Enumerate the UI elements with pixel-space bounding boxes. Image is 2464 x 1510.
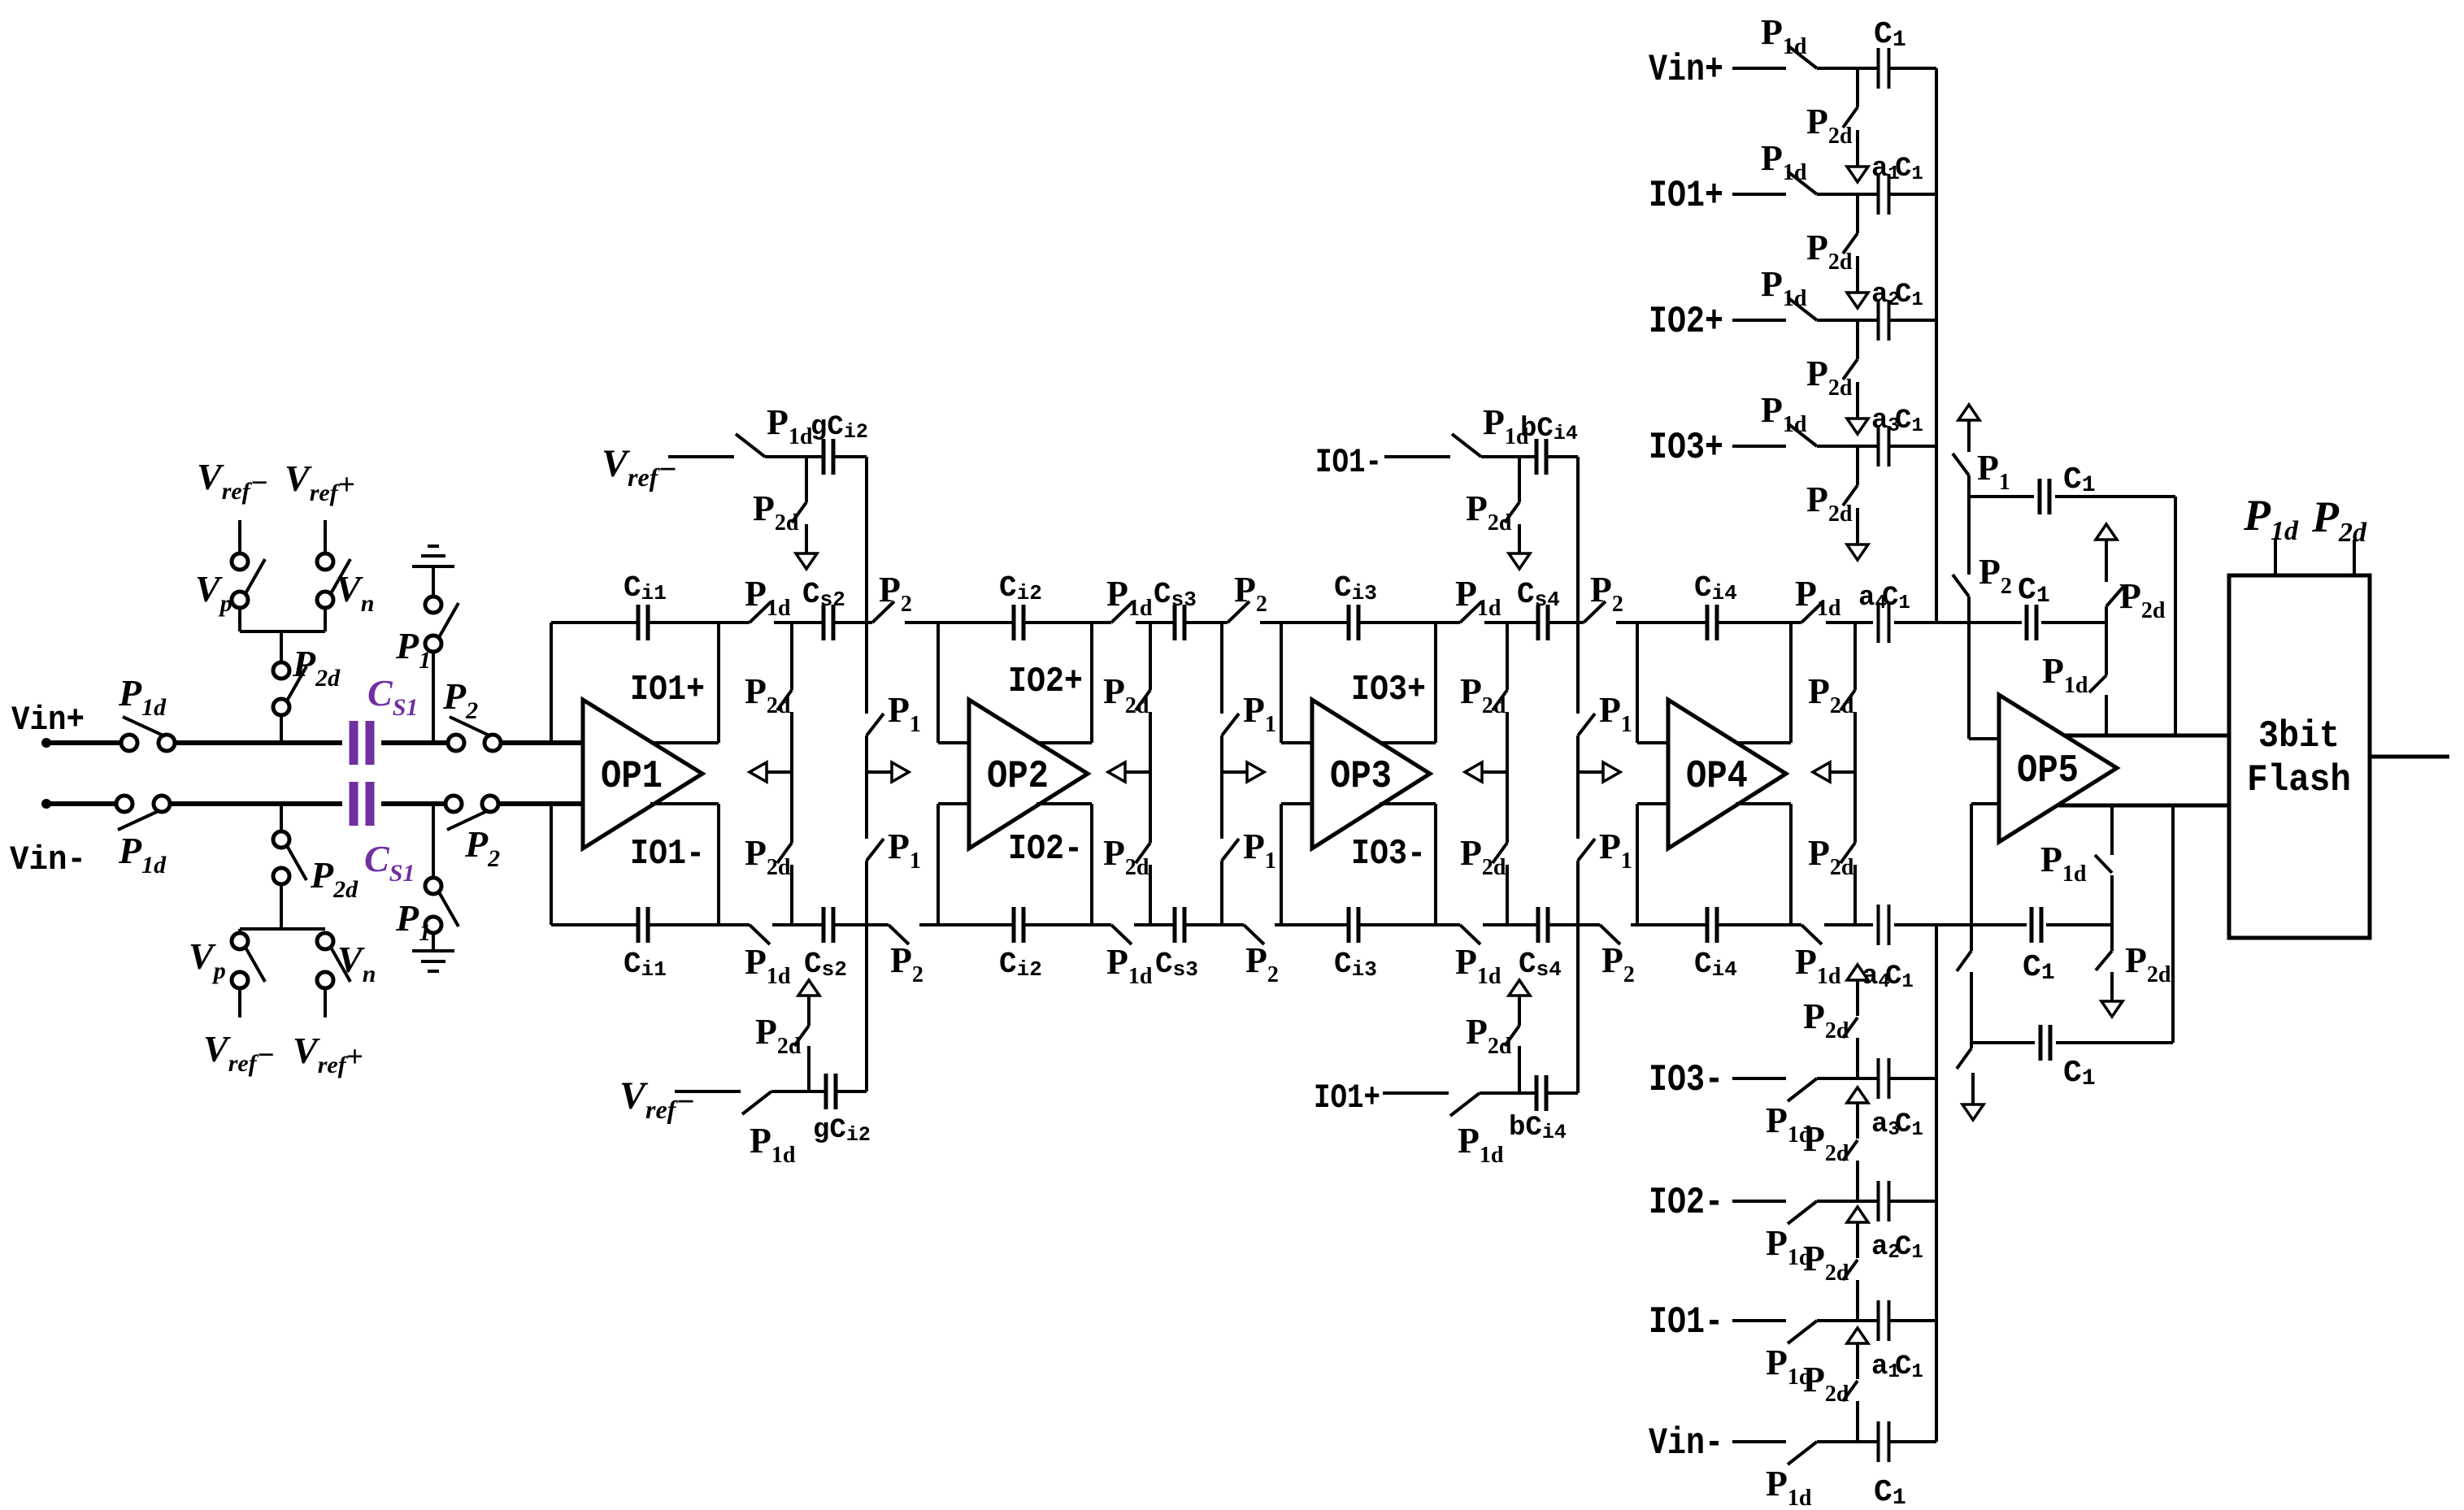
wire bCi4 vertical to top rail [1576, 457, 1580, 623]
op-amp OP1 [583, 700, 702, 848]
wire IO3- array row switch to cap [1817, 1077, 1879, 1080]
wire P1 vertical lower (stage3) [1576, 861, 1580, 925]
wire IO3+ array row P2d branch [1856, 446, 1859, 485]
wire bCi4 top switch to cap [1481, 455, 1536, 458]
switch P1 (top, to ground) [425, 597, 458, 652]
arrow down (IO3+ array row common-mode) [1847, 508, 1868, 560]
wire next-stage input stub (top) [938, 741, 969, 744]
capacitor C1 (Vin- array row) [1879, 1421, 1889, 1462]
switch P1d (bottom rail stage3) [1460, 925, 1480, 944]
switch P2d (gCi2 bottom) [794, 1026, 809, 1046]
switch Vn (bottom) [317, 933, 350, 988]
wire IO2+ array row feed [1732, 319, 1786, 322]
capacitor Cs4 (top) [1538, 605, 1548, 640]
arrow left (stage2 common-mode) [1108, 762, 1150, 782]
wire OP3 top output to rail [1434, 623, 1437, 743]
svg-text:Vin+: Vin+ [11, 701, 85, 740]
wire top rail stage4: C1 to P1d junction [2041, 621, 2106, 624]
switch P2 (OP5 top) [1953, 575, 1969, 597]
wire node A to P1 switch [1967, 475, 1971, 497]
wire top rail stage2: input node to Ci2 [938, 621, 1014, 624]
wire OP2 bottom output to rail [1090, 804, 1093, 925]
ground (top) [412, 546, 454, 566]
switch P2 (OP5 bottom) [1957, 951, 1971, 971]
arrow up (IO3- array row common-mode) [1847, 965, 1868, 1016]
wire gCi2 vertical to bottom rail [865, 925, 868, 1091]
switch P1d (gCi2 top) [736, 434, 765, 457]
wire top rail stage2: Ci2 to P1d [1023, 621, 1111, 624]
arrow up (IO2- array row common-mode) [1847, 1087, 1868, 1139]
wire OP5 top C1 row left [1969, 495, 2034, 498]
wire IO1+ array row switch to cap [1817, 193, 1879, 196]
switch P1 (lower middle stage1) [867, 839, 884, 861]
capacitor Ci1 (top feedback) [638, 605, 648, 640]
wire IO1- array row feed [1732, 1319, 1786, 1322]
wire P1 vertical upper (stage2) [1220, 623, 1223, 714]
wire OP5 - input vertical (to bottom rail) [1970, 804, 1973, 925]
wire IO2+ array row P2d branch [1856, 320, 1859, 359]
switch P2d (upper middle stage2) [1136, 690, 1150, 710]
switch P2d (Vin+ array row) [1843, 107, 1858, 128]
wire Vin+ to P1d switch [46, 740, 122, 745]
wire IO1- array row switch to cap [1817, 1319, 1879, 1322]
wire P2d stub above rail (OP5) [2105, 606, 2108, 623]
wire Vin+ array row switch to cap [1817, 67, 1879, 70]
wire bCi4 bottom P2d branch [1518, 1046, 1521, 1093]
svg-text:IO3-: IO3- [1649, 1059, 1723, 1101]
wire top rail stage3: Cs4 to P2 [1548, 621, 1584, 624]
wire OP1 bottom output stub [650, 802, 719, 805]
wire P2d to Vp/Vn tee (bottom) [280, 883, 283, 929]
arrow down (IO1+ array row common-mode) [1847, 256, 1868, 308]
wire bottom rail stage4: Ci4 to P1d [1717, 923, 1801, 926]
wire next-stage input vertical (bottom) [1280, 804, 1283, 925]
wire P1 vertical lower (stage2) [1220, 861, 1223, 925]
wire IO1+ array row feed [1732, 193, 1786, 196]
capacitor Ci2 (top feedback) [1014, 605, 1023, 640]
wire P1d lower segment (OP5 bottom) [2110, 875, 2114, 925]
wire P2d branch down (bottom) [280, 804, 283, 833]
node Vin- input terminal [41, 799, 51, 809]
wire OP1 feedback vertical top [550, 623, 553, 743]
wire tee to Vp switch [238, 606, 241, 631]
svg-text:Flash: Flash [2247, 759, 2351, 801]
switch P2 (top, before OP1) [448, 717, 501, 751]
wire OP5 top C1 row right [2055, 495, 2175, 498]
capacitor C1 (OP5 bottom input rail) [2032, 907, 2041, 943]
wire next-stage input vertical (top, from rail) [936, 623, 940, 743]
wire bottom rail stage2: P1d to Cs3 [1134, 923, 1175, 926]
wire top rail stage4: Ci4 to P1d [1717, 621, 1801, 624]
wire CS1 to P2 switch (bottom) [381, 801, 446, 806]
wire gCi2 top feed line [668, 455, 734, 458]
capacitor Ci4 (top feedback) [1707, 605, 1717, 640]
switch P2d (bottom reference branch) [273, 831, 306, 884]
switch P2d (IO2+ array row) [1843, 359, 1858, 380]
svg-text:3bit: 3bit [2258, 715, 2340, 757]
wire P1d clock stub into flash [2274, 538, 2277, 575]
op-amp OP5 [1999, 695, 2117, 842]
wire P2 to OP1 - input [497, 801, 583, 806]
svg-text:IO3+: IO3+ [1649, 427, 1723, 469]
svg-text:OP5: OP5 [2017, 749, 2079, 793]
wire P1 branch down (bottom) [432, 804, 435, 879]
wire OP1 top output to rail [717, 623, 720, 743]
svg-text:Vin-: Vin- [10, 840, 86, 879]
wire Vin- array row P2d branch [1856, 1401, 1859, 1442]
wire OP2 bottom output stub [1036, 802, 1092, 805]
arrow up (Vin- array row common-mode) [1847, 1328, 1868, 1379]
wire bottom rail stage2: Cs3 to P2 [1184, 923, 1244, 926]
switch P2 (bottom rail stage1) [889, 925, 909, 944]
wire P2d to Vp/Vn tee [280, 631, 283, 664]
switch P1 (bottom, to ground) [425, 878, 458, 933]
wire OP2 top output to rail [1090, 623, 1093, 743]
wire IO2- array row P2d branch [1856, 1161, 1859, 1201]
capacitor a1C1 (IO1- array row) [1879, 1300, 1889, 1341]
switch P2d (lower middle stage4) [1840, 843, 1855, 863]
wire Vin- to P1d switch [46, 801, 117, 806]
wire P2 to OP1 + input [499, 740, 583, 745]
capacitor a2C1 (IO2- array row) [1879, 1181, 1889, 1221]
wire top rail stage1: P1d to Cs2 [774, 621, 824, 624]
capacitor Cs2 (bottom) [824, 907, 833, 943]
svg-text:IO2-: IO2- [1649, 1182, 1723, 1224]
wire top rail stage3: P2 to next stage [1616, 621, 1637, 624]
arrow up (OP5 top reset) [1958, 405, 1979, 452]
switch P2d (IO1- array row) [1843, 1260, 1858, 1280]
wire bCi4 vertical to bottom rail [1576, 925, 1580, 1093]
wire IO2- array row feed [1732, 1200, 1786, 1203]
wire gCi2 top P2d branch [805, 457, 808, 502]
node Vin+ input terminal [41, 738, 51, 748]
switch P2 (top rail stage3) [1584, 601, 1606, 623]
capacitor a4C1 (top) [1879, 602, 1889, 643]
wire next-stage input stub (bottom) [1281, 802, 1312, 805]
wire IO3+ array row cap to bus [1889, 445, 1936, 448]
wire OP5 bottom output [2058, 804, 2229, 808]
wire Vn to Vref+ (bottom) [324, 987, 327, 1018]
wire top rail stage3: Ci3 to P1d [1358, 621, 1460, 624]
switch P1d (OP5 bottom feedback) [2095, 855, 2112, 873]
wire Vin- array row cap to bus [1889, 1440, 1936, 1443]
wire IO3- array row P2d branch [1856, 1038, 1859, 1078]
op-amp OP2 [969, 700, 1088, 848]
wire next-stage input vertical (top, from rail) [1280, 623, 1283, 743]
wire node A down to P2 [1967, 497, 1971, 575]
capacitor CS1 (bottom, purple) [354, 782, 370, 826]
wire top rail stage4: input node to Ci4 [1637, 621, 1707, 624]
switch P2d (upper middle stage3) [1493, 690, 1507, 710]
wire OP4 bottom output to rail [1789, 804, 1793, 925]
wire CS1 to P2 switch [381, 740, 449, 745]
switch P1d (Vin- series input switch) [116, 796, 170, 830]
svg-text:IO3-: IO3- [1351, 834, 1426, 874]
wire Vin- array row feed [1732, 1440, 1786, 1443]
switch P1d (IO2- array row) [1788, 1201, 1817, 1224]
wire P2d vertical lower (stage2) [1149, 865, 1152, 925]
wire Vp-Vn tee (bottom) [240, 927, 325, 931]
wire OP1 feedback vertical bottom [550, 804, 553, 925]
arrow right (stage3 to next stage) [1578, 762, 1620, 782]
wire OP5 + input vertical (from top rail) [1967, 623, 1971, 739]
capacitor Cs3 (bottom) [1175, 907, 1184, 943]
wire bCi4 bottom feed line [1383, 1091, 1449, 1095]
wire OP1 top output stub [650, 741, 719, 744]
wire OP3 bottom output to rail [1434, 804, 1437, 925]
wire bCi4 top feed line [1384, 455, 1450, 458]
wire OP3 bottom output stub [1380, 802, 1436, 805]
wire P2d stub below rail (OP5 bottom) [2110, 925, 2114, 951]
wire top rail stage3: P1d to Cs4 [1484, 621, 1538, 624]
wire bottom rail stage4: input node to Ci4 [1637, 923, 1707, 926]
wire P1d lower segment (OP5 top) [2105, 695, 2108, 735]
switch P2d (upper middle stage4) [1840, 690, 1855, 710]
wire Vin- array row switch to cap [1817, 1440, 1879, 1443]
svg-text:IO1+: IO1+ [1314, 1078, 1380, 1117]
wire IO2- array row switch to cap [1817, 1200, 1879, 1203]
arrow up (IO1- array row common-mode) [1847, 1207, 1868, 1258]
capacitor bCi4 (bCi4 top) [1536, 439, 1546, 475]
switch P2d (lower middle stage1) [777, 843, 792, 863]
wire OP1 bottom output to rail [717, 804, 720, 925]
switch P2d (lower middle stage2) [1136, 843, 1150, 863]
wire bottom rail stage4: a4C1 to C1 [1894, 923, 2027, 926]
wire P1d upper segment (OP5 bottom) [2110, 805, 2114, 855]
wire P1 vertical middle (stage2) [1220, 735, 1223, 839]
capacitor Ci3 (top feedback) [1349, 605, 1358, 640]
capacitor a3C1 (IO3- array row) [1879, 1058, 1889, 1099]
switch Vp (top) [232, 553, 265, 608]
arrow down (OP5 bottom reset) [1962, 1073, 1984, 1120]
wire P1 vertical upper (stage1) [865, 623, 868, 714]
switch P2d (IO2- array row) [1843, 1140, 1858, 1161]
switch P1d (top rail stage3) [1460, 601, 1482, 623]
block 3bit Flash ADC [2229, 575, 2370, 938]
wire P1 vertical middle (stage3) [1576, 735, 1580, 839]
capacitor C1 (OP5 top feedback) [2040, 479, 2049, 514]
wire bottom rail stage4: C1 to P1d junction [2046, 923, 2112, 926]
switch P1d (bottom rail stage1) [750, 925, 770, 944]
switch P2d (top reference branch) [273, 662, 306, 715]
capacitor Cs4 (bottom) [1538, 907, 1548, 943]
wire bottom rail stage3: Ci3 to P1d [1358, 923, 1460, 926]
wire OP5 bottom feedback vertical [2171, 805, 2175, 1043]
svg-text:IO1-: IO1- [1649, 1301, 1723, 1343]
wire bottom rail stage1: P1d to Cs2 [772, 923, 824, 926]
wire IO2- array row cap to bus [1889, 1200, 1936, 1203]
switch P2 (bottom rail stage2) [1244, 925, 1264, 944]
wire bottom rail stage2: Ci2 to P1d [1023, 923, 1111, 926]
wire OP5 + input stub [1969, 737, 1999, 740]
wire OP2 top output stub [1036, 741, 1092, 744]
wire flash digital output [2370, 755, 2449, 759]
svg-text:IO1-: IO1- [630, 834, 705, 874]
wire bottom array bus [1935, 925, 1938, 1442]
switch P2 (bottom rail stage3) [1600, 925, 1620, 944]
capacitor a2C1 (IO2+ array row) [1879, 300, 1889, 341]
wire P1 to ground (top) [432, 566, 435, 598]
switch P1d (top rail stage4) [1801, 601, 1823, 623]
svg-text:IO2+: IO2+ [1008, 662, 1083, 702]
wire next-stage input stub (bottom) [938, 802, 969, 805]
wire Vn to Vref+ [324, 520, 327, 555]
wire gCi2 top cap to vertical [833, 455, 867, 458]
wire P2d vertical lower (stage1) [790, 865, 793, 925]
switch P1 (upper middle stage1) [867, 714, 884, 735]
wire P2d vertical upper (stage4) [1853, 623, 1857, 690]
wire top rail stage1: Cs2 to P2 [833, 621, 872, 624]
svg-text:IO2-: IO2- [1008, 829, 1083, 870]
wire gCi2 bottom feed line [675, 1090, 741, 1093]
switch P2d (IO3+ array row) [1843, 485, 1858, 506]
svg-text:OP4: OP4 [1686, 755, 1748, 799]
switch P1d (bCi4 top) [1452, 434, 1481, 457]
wire OP4 bottom output stub [1736, 802, 1791, 805]
wire bottom rail stage1: P2 to next stage [919, 923, 938, 926]
wire P2d vertical lower (stage3) [1506, 865, 1509, 925]
wire bottom rail stage1: Cs2 to P2 [833, 923, 889, 926]
wire bottom rail stage2: input node to Ci2 [938, 923, 1014, 926]
wire bCi4 top P2d branch [1518, 457, 1521, 502]
switch Vp (bottom) [232, 933, 265, 988]
wire IO1- array row P2d branch [1856, 1280, 1859, 1321]
switch P2d (bCi4 top) [1505, 502, 1519, 523]
capacitor Ci4 (bottom feedback) [1707, 907, 1717, 943]
wire next-stage input vertical (bottom) [936, 804, 940, 925]
wire gCi2 bottom cap to vertical [836, 1090, 867, 1093]
wire gCi2 bottom switch to cap [771, 1090, 826, 1093]
wire Vin+ array row cap to bus [1889, 67, 1936, 70]
capacitor Cs3 (top) [1175, 605, 1184, 640]
svg-text:Vin+: Vin+ [1649, 49, 1723, 91]
wire P2d branch up (top) [280, 714, 283, 743]
wire P1 to ground (bottom) [432, 931, 435, 951]
switch P1d (IO3+ array row) [1788, 423, 1817, 446]
wire P2d vertical middle (stage2) [1149, 712, 1152, 843]
arrow left (stage3 common-mode) [1465, 762, 1507, 782]
wire gCi2 vertical to top rail [865, 457, 868, 623]
wire top rail stage2: Cs3 to P2 [1184, 621, 1228, 624]
wire P1d to CS1 (bottom) [168, 801, 342, 806]
capacitor a1C1 (IO1+ array row) [1879, 174, 1889, 215]
switch P1 (OP5 top reset) [1953, 453, 1969, 475]
wire gCi2 top switch to cap [765, 455, 824, 458]
wire OP5 bottom C1 row left [1971, 1041, 2035, 1044]
wire rail to P2 (OP5 bottom) [1970, 925, 1973, 951]
capacitor a3C1 (IO3+ array row) [1879, 426, 1889, 466]
wire bCi4 bottom switch to cap [1480, 1091, 1536, 1095]
wire bottom rail stage2: P2 to next stage [1275, 923, 1281, 926]
wire bottom rail stage1: input node to Ci1 [551, 923, 638, 926]
wire top rail stage1: input node to Ci1 [551, 621, 638, 624]
switch P2d (upper middle stage1) [777, 690, 792, 710]
wire P2 to node B [1970, 972, 1973, 1043]
wire OP5 top feedback vertical [2174, 497, 2177, 735]
svg-text:IO1-: IO1- [1315, 443, 1382, 482]
svg-text:OP3: OP3 [1330, 755, 1392, 799]
switch P1d (bottom rail stage2) [1111, 925, 1132, 944]
capacitor Cs2 (top) [824, 605, 833, 640]
ground (bottom) [412, 951, 454, 971]
capacitor gCi2 (gCi2 bottom) [826, 1074, 836, 1109]
wire P1 vertical lower (stage1) [865, 861, 868, 925]
wire tee to Vp switch (bottom) [238, 929, 241, 935]
capacitor Ci2 (bottom feedback) [1014, 907, 1023, 943]
wire next-stage input stub (bottom) [1637, 802, 1668, 805]
wire IO2+ array row cap to bus [1889, 319, 1936, 322]
switch P2d (OP5 top rail) [2106, 587, 2123, 606]
op-amp OP4 [1668, 700, 1786, 848]
switch P1d (bottom rail stage4) [1801, 925, 1822, 944]
svg-text:IO1+: IO1+ [630, 670, 705, 710]
switch Vn (top) [317, 553, 350, 608]
wire Vin+ array row P2d branch [1856, 68, 1859, 107]
wire IO3+ array row switch to cap [1817, 445, 1879, 448]
wire OP4 top output stub [1736, 741, 1791, 744]
wire OP4 top output to rail [1789, 623, 1793, 743]
arrow up (gCi2 bottom common-mode) [798, 980, 819, 1026]
switch P1d (bCi4 bottom) [1450, 1093, 1480, 1116]
switch P1d (IO1- array row) [1788, 1321, 1817, 1343]
wire bottom rail stage3: P1d to Cs4 [1483, 923, 1538, 926]
switch P2d (OP5 bottom rail) [2096, 951, 2112, 970]
switch P2d (bCi4 bottom) [1505, 1026, 1519, 1046]
wire IO2+ array row switch to cap [1817, 319, 1879, 322]
wire IO1- array row cap to bus [1889, 1319, 1936, 1322]
arrow up (OP5 top rail common-mode) [2096, 524, 2117, 582]
wire P2d vertical upper (stage3) [1506, 623, 1509, 690]
arrow left (stage4 common-mode) [1813, 762, 1855, 782]
arrow down (OP5 bottom rail common-mode) [2101, 972, 2123, 1017]
wire P2d vertical middle (stage4) [1853, 712, 1857, 843]
switch P2 (top rail stage1) [872, 601, 894, 623]
wire top rail stage4: a4C1 to C1 [1894, 621, 2022, 624]
wire node B to P1 (OP5 bottom) [1970, 1043, 1973, 1048]
switch P2d (gCi2 top) [792, 502, 806, 523]
arrow up (bCi4 bottom common-mode) [1509, 980, 1530, 1026]
arrow down (bCi4 top common-mode) [1509, 524, 1530, 569]
wire next-stage input stub (top) [1281, 741, 1312, 744]
switch P1 (OP5 bottom reset) [1957, 1048, 1971, 1069]
svg-text:IO1+: IO1+ [1649, 175, 1723, 217]
wire OP3 top output stub [1380, 741, 1436, 744]
wire IO3- array row cap to bus [1889, 1077, 1936, 1080]
svg-text:OP2: OP2 [987, 755, 1049, 799]
wire bCi4 bottom cap to vertical [1546, 1091, 1578, 1095]
arrow right (stage2 to next stage) [1222, 762, 1264, 782]
capacitor CS1 (top, purple) [354, 721, 370, 765]
arrow down (IO2+ array row common-mode) [1847, 382, 1868, 434]
wire P2d vertical middle (stage3) [1506, 712, 1509, 843]
wire P1 branch up (top) [432, 650, 435, 743]
wire P1d upper segment (OP5 top) [2105, 623, 2108, 675]
wire OP5 - input stub [1971, 802, 1999, 805]
wire bottom rail stage1: Ci1 to P1d [648, 923, 750, 926]
wire bCi4 top cap to vertical [1546, 455, 1578, 458]
wire Vp-Vn tee (top) [240, 630, 325, 633]
wire top rail stage2: P2 to next stage [1260, 621, 1281, 624]
svg-text:IO3+: IO3+ [1351, 670, 1426, 710]
switch P1d (IO1+ array row) [1788, 171, 1817, 194]
wire IO3+ array row feed [1732, 445, 1786, 448]
wire IO1+ array row cap to bus [1889, 193, 1936, 196]
switch P1d (top rail stage1) [750, 601, 771, 623]
switch P1d (gCi2 bottom) [742, 1091, 771, 1114]
switch P2 (bottom, before OP1) [445, 796, 498, 830]
arrow right (stage1 to next stage) [867, 762, 909, 782]
switch P1d (OP5 top feedback) [2089, 675, 2106, 692]
